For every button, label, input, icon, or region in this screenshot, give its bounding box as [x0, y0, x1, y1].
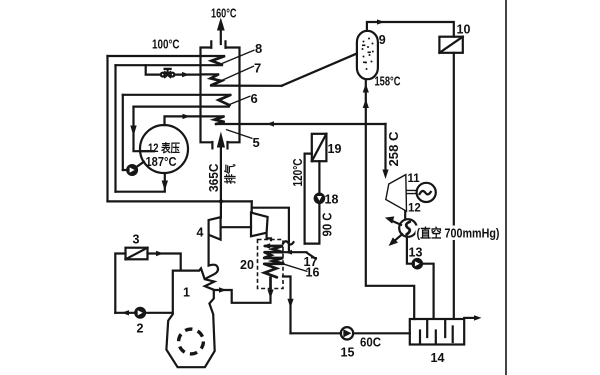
- generator G1: [417, 183, 436, 202]
- main gas line (left riser to turbo): [108, 200, 252, 202]
- svg-text:9: 9: [379, 33, 386, 47]
- wire v4 drum feed: [134, 107, 155, 152]
- condensate pump 13: [412, 258, 424, 270]
- label (vacuum 700mmHg): [416, 226, 502, 241]
- arrow v4 down: [130, 126, 136, 137]
- svg-text:2: 2: [137, 322, 144, 336]
- coil 8: [108, 56, 225, 65]
- svg-text:1: 1: [183, 286, 190, 300]
- svg-text:90 C: 90 C: [320, 213, 334, 237]
- coil 5: [215, 117, 386, 124]
- svg-text:6: 6: [251, 91, 258, 106]
- arrow drum down: [162, 181, 168, 191]
- wire box10 down to hotwell: [453, 53, 455, 319]
- steam drum (12 gauge, 187C): [140, 125, 188, 173]
- svg-text:365C: 365C: [207, 164, 221, 193]
- wire v1 feed riser: [106, 56, 108, 201]
- wire diagonal to separator 9: [282, 54, 357, 86]
- HX20 coil 17/16: [263, 243, 284, 288]
- turbocharger 4 turbine: [251, 213, 271, 241]
- heater box 19: [312, 134, 327, 161]
- arrow to engine top: [156, 251, 164, 256]
- svg-text:187°C: 187°C: [146, 155, 177, 169]
- valve V1: [161, 69, 201, 77]
- wire separator top to box 10: [367, 22, 454, 37]
- figure border line right: [505, 0, 507, 375]
- arrow on coil5 line left: [267, 121, 275, 126]
- wire drum blowdown to v2: [116, 173, 165, 192]
- svg-text:120°C: 120°C: [291, 159, 305, 187]
- wire condenser to pump 13: [407, 237, 412, 264]
- arrow on top line: [377, 19, 385, 24]
- circulating pump at drum: [123, 162, 144, 176]
- arrow 258C down: [382, 170, 388, 180]
- wire branch to HX 20: [252, 208, 289, 252]
- svg-text:158°C: 158°C: [375, 75, 401, 89]
- drum steam line to coil 5: [165, 116, 224, 125]
- svg-text:排气: 排气: [223, 164, 237, 184]
- svg-text:20: 20: [240, 258, 254, 272]
- 160C outlet arrow: [217, 18, 225, 45]
- wire steam main to turbine (258C): [384, 124, 386, 172]
- turbo shaft: [221, 226, 251, 228]
- arrow drum steam: [183, 114, 191, 119]
- wire valve branch: [146, 65, 161, 74]
- heat exchanger tower (economizer) shell: [201, 41, 240, 148]
- wire intake air duct with hook: [205, 235, 218, 279]
- svg-text:160°C: 160°C: [211, 7, 237, 21]
- leader 8: [222, 50, 255, 64]
- wire turbo inlet drop: [251, 201, 253, 212]
- generator shaft: [406, 190, 416, 193]
- wire coil17 stub and leader 17: [283, 252, 316, 259]
- svg-text:19: 19: [328, 142, 342, 156]
- wire v2 riser: [114, 65, 116, 192]
- arrow bottom loop left: [122, 310, 130, 315]
- HX 20 shell (dashed): [258, 240, 284, 289]
- engine crank circle (dashed): [179, 329, 204, 354]
- hotwell overflow outlet: [464, 317, 474, 319]
- svg-text:258 C: 258 C: [387, 132, 401, 167]
- exhaust duct 365C: [220, 148, 222, 217]
- condenser / vacuum unit 12: [385, 216, 417, 246]
- turbocharger 4 compressor: [209, 217, 221, 239]
- wire engine exhaust manifold to HX20: [214, 289, 271, 303]
- arrow up to separator (2): [363, 99, 369, 108]
- feed pump 15: [341, 327, 353, 339]
- cooler box 3: [126, 248, 148, 260]
- wire condensate line to hotwell: [291, 332, 410, 334]
- vent cooler box 10: [439, 37, 462, 53]
- wire separator riser (main vertical): [366, 79, 414, 319]
- coil 6: [123, 95, 231, 107]
- svg-text:10: 10: [457, 23, 471, 37]
- svg-text:3: 3: [133, 233, 140, 247]
- 120C return riser: [305, 154, 312, 244]
- coil 7: [201, 74, 282, 85]
- node at exhaust duct junction: [219, 199, 223, 203]
- svg-text:100°C: 100°C: [152, 38, 180, 52]
- leader 7: [221, 66, 255, 81]
- separator drum 9: [357, 31, 378, 79]
- leader 6: [230, 96, 251, 105]
- wire pump13 to hotwell: [423, 264, 434, 319]
- zigzag at HX20 top corner: [283, 241, 294, 244]
- arrow drain down into junction: [267, 290, 273, 299]
- svg-text:14: 14: [431, 351, 445, 365]
- svg-text:13: 13: [409, 246, 423, 260]
- arrow into coil 7: [182, 72, 190, 77]
- wire turbine exhaust to condenser: [404, 211, 406, 219]
- svg-text:7: 7: [254, 61, 261, 76]
- arrow engine out: [219, 287, 227, 292]
- 90C riser to HX19: [305, 161, 320, 243]
- jacket loop left: [115, 254, 125, 313]
- arrow up to separator (1): [363, 84, 369, 93]
- leader 5: [226, 130, 253, 139]
- svg-text:8: 8: [255, 41, 262, 56]
- svg-text:(直空 700mmHg): (直空 700mmHg): [417, 226, 500, 241]
- steam turbine 11: [386, 175, 407, 212]
- svg-text:15: 15: [341, 346, 355, 360]
- svg-text:5: 5: [253, 135, 260, 150]
- svg-text:12: 12: [408, 203, 421, 215]
- wire v3 riser: [122, 95, 124, 170]
- jacket loop bottom: [115, 312, 172, 314]
- svg-text:60C: 60C: [360, 336, 381, 350]
- hotwell tank 14: [410, 319, 464, 345]
- leader 16: [284, 264, 308, 271]
- svg-text:18: 18: [325, 193, 339, 207]
- svg-text:12 表压: 12 表压: [148, 141, 180, 155]
- svg-text:16: 16: [306, 266, 320, 280]
- svg-text:4: 4: [197, 226, 204, 240]
- diesel engine 1 outline: [166, 268, 214, 367]
- svg-text:11: 11: [408, 173, 421, 185]
- jacket loop top (cooler to engine): [148, 254, 181, 270]
- cooling pump 2: [134, 307, 146, 319]
- heater pump 18: [314, 193, 326, 205]
- arrow exhaust up: [217, 132, 225, 148]
- arrow down to pump15 line: [287, 299, 293, 308]
- wire coil16 outlet to condensate line: [283, 277, 291, 334]
